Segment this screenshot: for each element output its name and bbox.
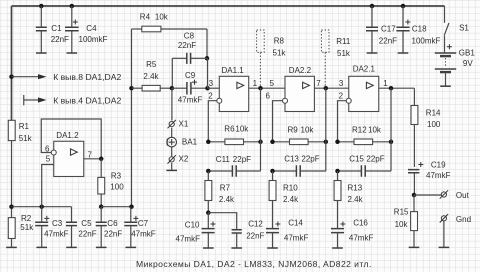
ground C17 (367, 52, 378, 54)
svg-text:22nF: 22nF (51, 35, 69, 44)
capacitor C11 22pF (208, 155, 260, 177)
svg-text:1: 1 (383, 79, 388, 88)
svg-text:R5: R5 (146, 60, 157, 69)
capacitor C16 47mkF electrolytic (331, 219, 373, 248)
connector Out (440, 190, 470, 200)
svg-text:C3: C3 (52, 219, 63, 228)
wire pin6 DA2.2 to feedback (273, 101, 283, 142)
svg-text:22nF: 22nF (78, 230, 96, 239)
svg-text:К выв.4 DA1,DA2: К выв.4 DA1,DA2 (53, 95, 121, 105)
svg-text:22pF: 22pF (366, 155, 384, 164)
resistor R10 2.4k (269, 171, 299, 228)
svg-text:C10: C10 (185, 220, 200, 229)
svg-text:2: 2 (339, 91, 344, 100)
svg-text:C16: C16 (353, 219, 368, 228)
node railB-bus (129, 204, 134, 209)
svg-text:10k: 10k (301, 126, 315, 135)
node R5-C9-X1 (170, 86, 175, 91)
ground C4 (67, 52, 78, 54)
resistor R12 10k feedback (338, 126, 392, 145)
svg-text:10k: 10k (235, 124, 249, 133)
node R9 right (324, 140, 329, 145)
node C19 bottom (412, 193, 417, 198)
node rail-C4 (70, 4, 75, 9)
connector X2 (168, 147, 189, 164)
resistor R9 10k feedback (273, 126, 326, 145)
node C15 left (335, 169, 340, 174)
svg-text:1: 1 (253, 79, 258, 88)
op-amp DA1.1 (208, 66, 257, 112)
capacitor C18 100mkF electrolytic (396, 6, 440, 53)
resistor R7 2.4k (205, 171, 235, 213)
wire R1 to ground rail (11, 141, 13, 218)
wire DA1.2 output pin7 (84, 158, 101, 160)
svg-text:R9: R9 (288, 126, 299, 135)
ground R15 (409, 246, 420, 248)
svg-text:22nF: 22nF (104, 230, 122, 239)
node R12 right (389, 140, 394, 145)
svg-text:R13: R13 (348, 183, 363, 192)
node C13 left (270, 169, 275, 174)
node R6 right (258, 140, 263, 145)
svg-text:7: 7 (88, 151, 93, 160)
ground R2 (6, 246, 17, 248)
svg-text:22pF: 22pF (301, 155, 319, 164)
svg-text:3: 3 (339, 79, 344, 88)
wire feedback right vertical stage1 (260, 88, 262, 171)
svg-text:47mkF: 47mkF (178, 96, 203, 105)
svg-text:100: 100 (427, 120, 441, 129)
svg-text:C13: C13 (284, 155, 299, 164)
capacitor C14 47mkF electrolytic (266, 219, 308, 248)
svg-text:51k: 51k (19, 134, 33, 143)
wire left vertical rail (11, 6, 13, 120)
svg-text:X2: X2 (179, 155, 189, 164)
wire to Out (414, 194, 441, 196)
ground C16 (332, 247, 343, 249)
node rail-C18 (401, 4, 406, 9)
svg-text:51k: 51k (337, 49, 351, 58)
wire DA2.1 output (379, 87, 415, 89)
resistor R3 100 (98, 159, 124, 207)
svg-text:10k: 10k (155, 12, 169, 21)
node C9-pin3 (205, 86, 210, 91)
node DA2.1 out (389, 86, 394, 91)
switch S1 (444, 6, 469, 53)
wire DA1.1 output (249, 87, 285, 89)
node DA2.2 out (324, 86, 329, 91)
node C8 right (205, 56, 210, 61)
svg-text:47mkF: 47mkF (44, 230, 69, 239)
node rail-C17 (370, 4, 375, 9)
ground GB1 (440, 85, 451, 87)
capacitor C4 electrolytic (65, 6, 108, 53)
svg-text:R6: R6 (224, 124, 235, 133)
svg-text:5: 5 (270, 79, 275, 88)
capacitor C7 47mkF electrolytic (124, 207, 155, 248)
capacitor C13 22pF (273, 155, 326, 177)
svg-text:100: 100 (110, 183, 124, 192)
node R12 left (335, 140, 340, 145)
svg-text:2: 2 (208, 91, 213, 100)
svg-text:DA2.1: DA2.1 (353, 65, 376, 74)
svg-text:C12: C12 (248, 220, 263, 229)
svg-text:R10: R10 (283, 183, 298, 192)
capacitor C12 22nF (208, 213, 264, 248)
svg-text:C6: C6 (107, 219, 118, 228)
svg-text:22nF: 22nF (379, 36, 397, 45)
svg-text:R12: R12 (352, 126, 367, 135)
pin 2 inverting circle DA1.1 (217, 98, 222, 103)
wire feedback right vertical stage2 (325, 88, 327, 171)
ground C6 (96, 246, 107, 248)
microphone BA1 (167, 128, 198, 147)
op-amp DA2.1 (339, 65, 389, 112)
battery GB1 9V (435, 44, 476, 86)
svg-text:C5: C5 (81, 219, 92, 228)
connector X1 (168, 120, 189, 129)
wire DA1.2 pin5 to rail A (42, 165, 54, 207)
svg-text:47mkF: 47mkF (426, 171, 451, 180)
svg-text:2.4k: 2.4k (348, 195, 364, 204)
wire rail B (101, 206, 131, 208)
arrow to pin 8 DA1,DA2 (12, 72, 122, 82)
arrow to pin 4 DA1,DA2 (24, 95, 122, 105)
svg-text:DA1.1: DA1.1 (222, 66, 245, 75)
ground C18 (398, 52, 409, 54)
svg-text:К выв.8 DA1,DA2: К выв.8 DA1,DA2 (53, 72, 121, 82)
node bus-R5 (129, 86, 134, 91)
ground C10 (203, 247, 214, 249)
node R9 left (270, 140, 275, 145)
wire DA2.1 out to R14 (413, 88, 415, 105)
svg-text:6: 6 (266, 91, 271, 100)
svg-text:C9: C9 (185, 71, 196, 80)
svg-text:5: 5 (46, 155, 51, 164)
ground C12 (231, 247, 242, 249)
resistor R8 51k optional dashed (257, 30, 287, 86)
node DA1.1 out (258, 86, 263, 91)
resistor R11 51k optional dashed (321, 30, 350, 86)
capacitor C15 22pF (338, 155, 392, 177)
wire Gnd to ground (443, 221, 445, 247)
svg-text:22nF: 22nF (178, 41, 196, 50)
ground C5 (66, 246, 77, 248)
wire C8 left down to R5-C9 node (171, 58, 173, 88)
node railA-C3 (39, 204, 44, 209)
svg-text:C11: C11 (216, 155, 231, 164)
svg-text:R2: R2 (21, 214, 32, 223)
wire pin2 DA1.1 to feedback (208, 101, 217, 142)
capacitor C8 22nF (172, 32, 207, 64)
pin 6 inverting circle DA2.2 (283, 98, 288, 103)
svg-text:C15: C15 (349, 155, 364, 164)
ground Gnd terminal (439, 246, 450, 248)
svg-text:Микросхемы DA1, DA2 - LM833, N: Микросхемы DA1, DA2 - LM833, NJM2068, AD… (136, 259, 372, 269)
resistor R14 100 (411, 106, 441, 168)
resistor R5 2.4k (132, 60, 172, 91)
svg-text:BA1: BA1 (182, 138, 198, 147)
svg-text:C19: C19 (431, 160, 446, 169)
svg-text:10k: 10k (368, 126, 382, 135)
node rail tap arrow (9, 74, 14, 79)
svg-text:X1: X1 (179, 120, 189, 129)
connector Gnd (440, 214, 471, 224)
svg-text:C7: C7 (138, 219, 149, 228)
capacitor C9 47mkF electrolytic (172, 71, 208, 104)
wire pin3 node up to C8 (207, 58, 209, 88)
wire pin3 DA1.1 (208, 87, 220, 89)
svg-text:47mkF: 47mkF (176, 234, 201, 243)
ground C1 (36, 52, 47, 54)
capacitor C1 (36, 6, 69, 53)
wire DA2.2 output (314, 87, 348, 89)
ground C3 (36, 246, 47, 248)
svg-text:22pF: 22pF (233, 155, 251, 164)
wire pin2 DA2.1 to feedback (338, 101, 347, 142)
svg-text:R11: R11 (336, 37, 351, 46)
wire top positive rail (12, 5, 445, 7)
svg-text:R4: R4 (140, 12, 151, 21)
wire DA1.2 feedback loop pin6 (41, 119, 101, 159)
op-amp DA1.2 (45, 131, 93, 177)
capacitor C3 47mkF electrolytic (35, 207, 68, 248)
svg-text:47mkF: 47mkF (349, 233, 374, 242)
capacitor C10 47mkF electrolytic (176, 213, 216, 248)
svg-text:22nF: 22nF (246, 232, 264, 241)
svg-text:S1: S1 (459, 24, 469, 33)
pin 2 inverting circle DA2.1 (346, 98, 351, 103)
capacitor C6 22nF (96, 207, 123, 248)
svg-text:C14: C14 (288, 219, 303, 228)
svg-text:C4: C4 (86, 24, 97, 33)
svg-text:2.4k: 2.4k (283, 195, 299, 204)
svg-text:100mkF: 100mkF (412, 36, 441, 45)
capacitor C17 22nF (366, 6, 397, 53)
node R7 bottom (206, 210, 211, 215)
svg-text:R3: R3 (111, 171, 122, 180)
wire rail A (12, 206, 72, 208)
resistor R15 10k (394, 195, 418, 247)
svg-text:3: 3 (209, 79, 214, 88)
wire bus vertical (R4 left / R5 left) (131, 29, 133, 207)
svg-text:R1: R1 (19, 122, 30, 131)
svg-text:9V: 9V (463, 59, 473, 68)
svg-text:C18: C18 (412, 25, 427, 34)
resistor R1 51k (8, 120, 32, 143)
svg-text:C1: C1 (51, 24, 62, 33)
svg-text:DA2.2: DA2.2 (289, 66, 312, 75)
svg-text:DA1.2: DA1.2 (56, 131, 79, 140)
svg-text:GB1: GB1 (459, 49, 476, 58)
resistor R4 10k (132, 12, 208, 32)
svg-text:100mkF: 100mkF (79, 35, 108, 44)
pin 6 inverting circle DA1.2 (51, 150, 56, 155)
node left rail A (9, 204, 14, 209)
wire R4 right down to C8 node (206, 29, 208, 58)
svg-text:51k: 51k (273, 48, 287, 57)
svg-text:R14: R14 (426, 108, 441, 117)
wire feedback right vertical stage3 (390, 88, 392, 171)
node rail-C1 (39, 4, 44, 9)
svg-text:C8: C8 (184, 32, 195, 41)
node DA1.2 out (99, 157, 104, 162)
capacitor C19 47mkF electrolytic (408, 160, 451, 195)
ground C14 (267, 247, 278, 249)
svg-text:Gnd: Gnd (456, 215, 471, 224)
svg-text:R8: R8 (274, 37, 285, 46)
node C11 left (206, 169, 211, 174)
svg-text:2.4k: 2.4k (219, 195, 235, 204)
svg-text:R7: R7 (220, 183, 231, 192)
wire mic branch (171, 88, 173, 120)
svg-text:2.4k: 2.4k (143, 72, 159, 81)
svg-text:Out: Out (456, 191, 470, 200)
svg-text:51k: 51k (20, 223, 34, 232)
resistor R6 10k feedback (208, 124, 260, 144)
ground X2 (171, 163, 173, 170)
node R3 bottom (99, 204, 104, 209)
svg-text:R15: R15 (394, 207, 409, 216)
svg-text:47mkF: 47mkF (284, 233, 309, 242)
svg-text:47mkF: 47mkF (131, 230, 156, 239)
resistor R13 2.4k (334, 171, 364, 228)
svg-text:10k: 10k (395, 220, 409, 229)
svg-text:7: 7 (316, 79, 321, 88)
op-amp DA2.2 (266, 66, 322, 112)
capacitor C5 22nF (66, 207, 97, 248)
resistor R2 51k (8, 214, 34, 248)
ground C7 (126, 246, 137, 248)
node R6 left (206, 140, 211, 145)
svg-text:C17: C17 (381, 25, 396, 34)
